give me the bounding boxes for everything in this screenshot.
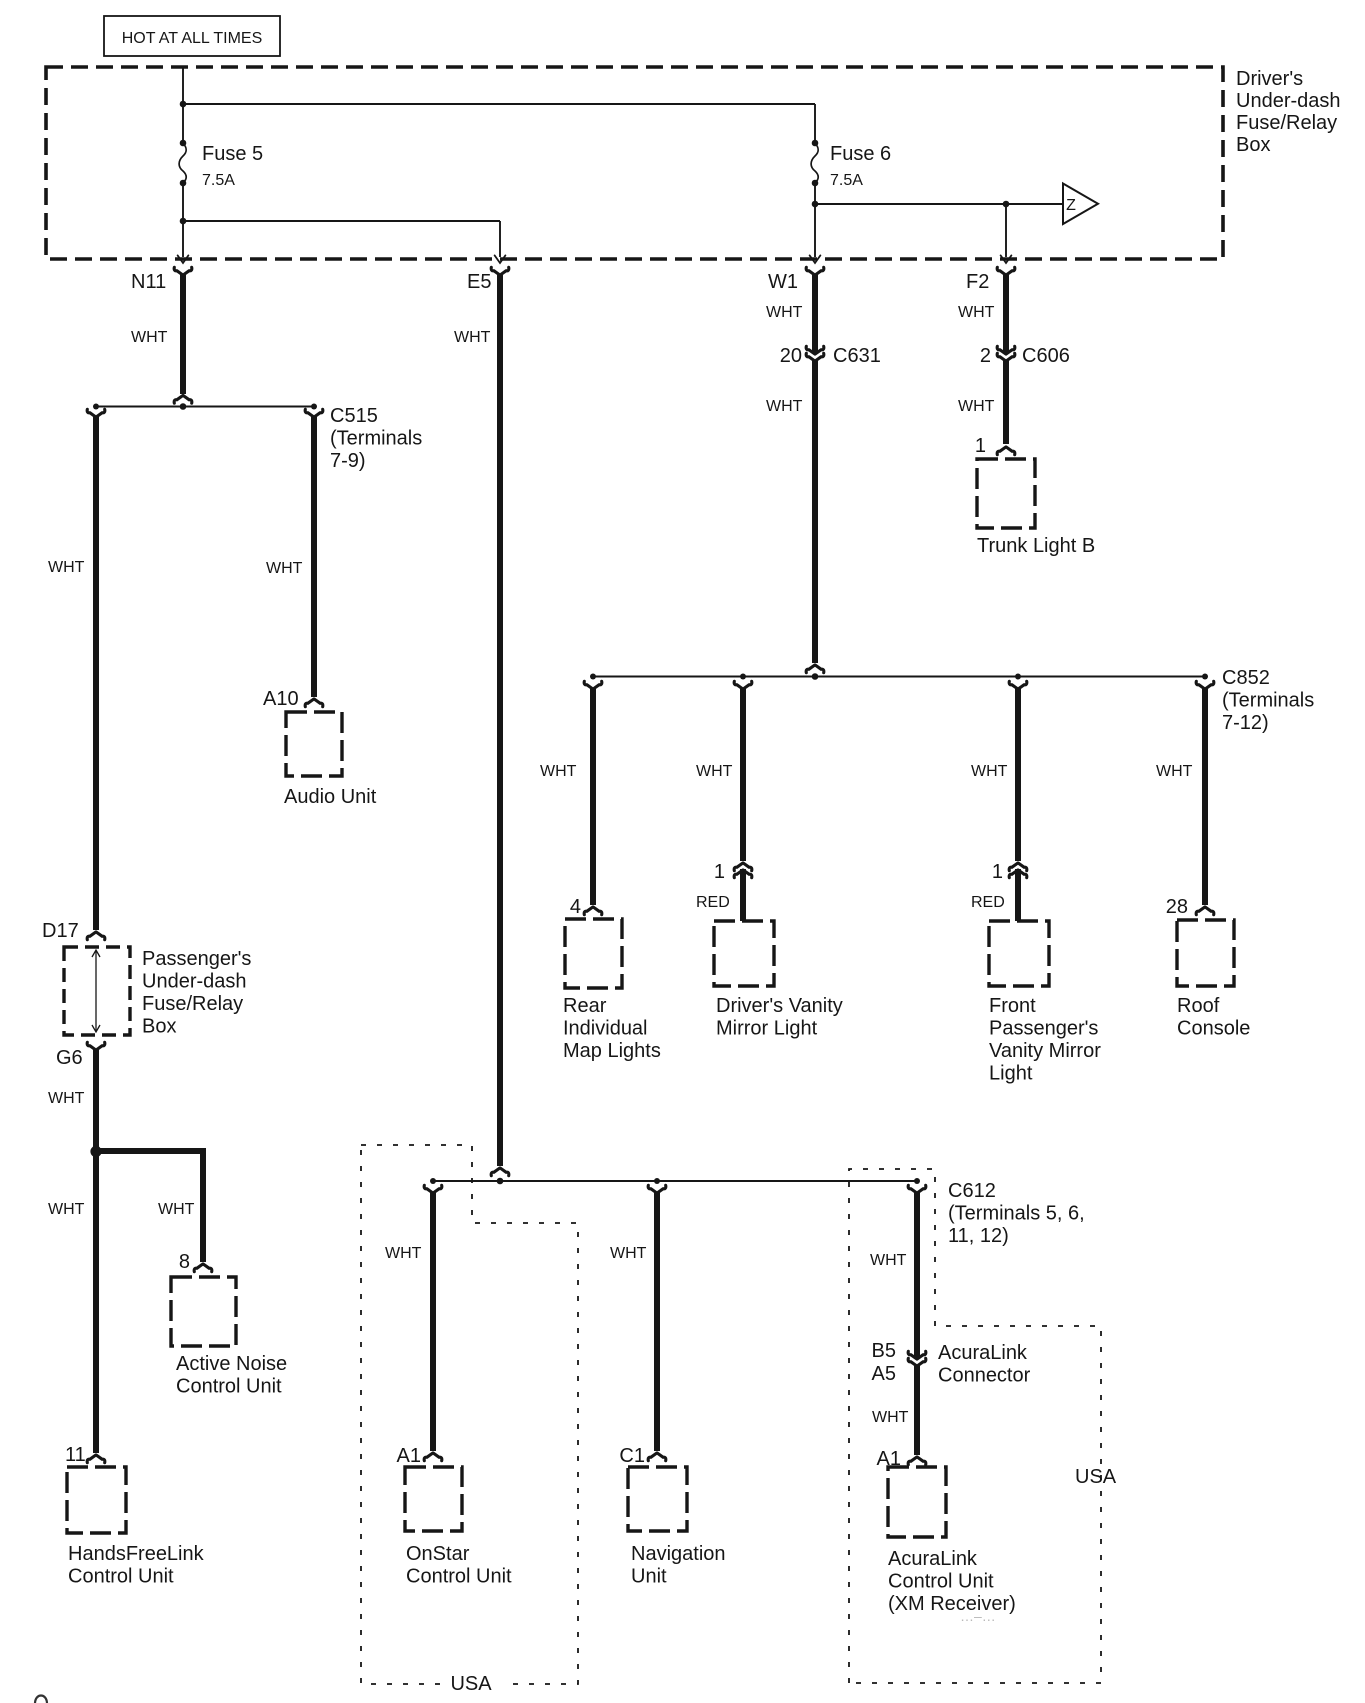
svg-text:…–…: …–… xyxy=(960,1608,996,1624)
svg-text:N11: N11 xyxy=(131,271,166,293)
svg-text:WHT: WHT xyxy=(1156,763,1193,780)
svg-text:C606: C606 xyxy=(1022,345,1070,367)
svg-text:Fuse 6: Fuse 6 xyxy=(830,143,891,165)
svg-text:Roof: Roof xyxy=(1177,995,1220,1017)
svg-text:Driver's: Driver's xyxy=(1236,68,1303,90)
svg-text:WHT: WHT xyxy=(454,329,491,346)
svg-text:Fuse/Relay: Fuse/Relay xyxy=(142,993,243,1015)
svg-text:Map Lights: Map Lights xyxy=(563,1040,661,1062)
svg-text:(XM Receiver): (XM Receiver) xyxy=(888,1593,1016,1615)
svg-text:Passenger's: Passenger's xyxy=(989,1018,1098,1040)
svg-text:Box: Box xyxy=(1236,134,1270,156)
svg-text:11: 11 xyxy=(65,1444,86,1466)
svg-text:Z: Z xyxy=(1066,197,1076,214)
svg-text:C515: C515 xyxy=(330,405,378,427)
svg-text:Control Unit: Control Unit xyxy=(406,1566,512,1588)
svg-text:Control Unit: Control Unit xyxy=(176,1376,282,1398)
svg-text:Fuse 5: Fuse 5 xyxy=(202,143,263,165)
svg-text:WHT: WHT xyxy=(958,398,995,415)
svg-text:Driver's Vanity: Driver's Vanity xyxy=(716,995,843,1017)
svg-text:7-9): 7-9) xyxy=(330,450,366,472)
svg-text:Vanity Mirror: Vanity Mirror xyxy=(989,1040,1101,1062)
svg-text:WHT: WHT xyxy=(158,1201,195,1218)
svg-text:1: 1 xyxy=(975,435,986,457)
svg-text:Front: Front xyxy=(989,995,1036,1017)
svg-text:HOT AT ALL TIMES: HOT AT ALL TIMES xyxy=(122,30,263,47)
svg-text:WHT: WHT xyxy=(870,1252,907,1269)
svg-text:Mirror Light: Mirror Light xyxy=(716,1018,818,1040)
svg-text:Rear: Rear xyxy=(563,995,607,1017)
svg-text:WHT: WHT xyxy=(766,304,803,321)
svg-text:8: 8 xyxy=(179,1251,190,1273)
svg-text:(Terminals 5, 6,: (Terminals 5, 6, xyxy=(948,1203,1085,1225)
svg-text:A1: A1 xyxy=(397,1445,421,1467)
svg-text:Active Noise: Active Noise xyxy=(176,1353,287,1375)
svg-text:USA: USA xyxy=(1075,1466,1117,1488)
svg-text:Navigation: Navigation xyxy=(631,1543,726,1565)
svg-text:A10: A10 xyxy=(263,688,299,710)
svg-text:F2: F2 xyxy=(966,271,989,293)
svg-text:WHT: WHT xyxy=(266,560,303,577)
svg-text:1: 1 xyxy=(992,861,1003,883)
svg-text:Audio Unit: Audio Unit xyxy=(284,786,377,808)
svg-text:A5: A5 xyxy=(872,1363,896,1385)
svg-text:WHT: WHT xyxy=(958,304,995,321)
svg-text:WHT: WHT xyxy=(48,1090,85,1107)
svg-text:(Terminals: (Terminals xyxy=(330,428,422,450)
svg-text:WHT: WHT xyxy=(696,763,733,780)
svg-text:(Terminals: (Terminals xyxy=(1222,690,1314,712)
svg-text:C631: C631 xyxy=(833,345,881,367)
svg-text:WHT: WHT xyxy=(385,1245,422,1262)
svg-text:1: 1 xyxy=(714,861,725,883)
svg-text:D17: D17 xyxy=(42,920,79,942)
svg-text:Box: Box xyxy=(142,1016,176,1038)
svg-text:20: 20 xyxy=(780,345,802,367)
svg-text:Control Unit: Control Unit xyxy=(68,1566,174,1588)
svg-text:Console: Console xyxy=(1177,1018,1250,1040)
svg-text:C852: C852 xyxy=(1222,667,1270,689)
svg-text:7.5A: 7.5A xyxy=(830,172,863,189)
svg-text:E5: E5 xyxy=(467,271,491,293)
svg-text:G6: G6 xyxy=(56,1047,83,1069)
svg-text:RED: RED xyxy=(696,894,730,911)
svg-text:Individual: Individual xyxy=(563,1018,648,1040)
svg-text:7-12): 7-12) xyxy=(1222,712,1269,734)
svg-text:Under-dash: Under-dash xyxy=(1236,90,1341,112)
svg-text:4: 4 xyxy=(570,896,581,918)
svg-text:WHT: WHT xyxy=(131,329,168,346)
svg-text:2: 2 xyxy=(980,345,991,367)
svg-text:11, 12): 11, 12) xyxy=(948,1225,1009,1247)
svg-text:Light: Light xyxy=(989,1063,1033,1085)
svg-text:HandsFreeLink: HandsFreeLink xyxy=(68,1543,205,1565)
svg-text:WHT: WHT xyxy=(872,1409,909,1426)
svg-text:WHT: WHT xyxy=(610,1245,647,1262)
svg-text:B5: B5 xyxy=(872,1340,896,1362)
svg-text:RED: RED xyxy=(971,894,1005,911)
svg-text:Under-dash: Under-dash xyxy=(142,971,247,993)
svg-text:WHT: WHT xyxy=(540,763,577,780)
svg-text:OnStar: OnStar xyxy=(406,1543,470,1565)
svg-text:AcuraLink: AcuraLink xyxy=(888,1548,978,1570)
svg-text:7.5A: 7.5A xyxy=(202,172,235,189)
svg-text:Trunk Light B: Trunk Light B xyxy=(977,535,1095,557)
svg-text:Fuse/Relay: Fuse/Relay xyxy=(1236,112,1337,134)
svg-text:C612: C612 xyxy=(948,1180,996,1202)
svg-text:AcuraLink: AcuraLink xyxy=(938,1342,1028,1364)
svg-text:Unit: Unit xyxy=(631,1566,667,1588)
svg-text:WHT: WHT xyxy=(48,1201,85,1218)
svg-text:Passenger's: Passenger's xyxy=(142,948,251,970)
svg-text:28: 28 xyxy=(1166,896,1188,918)
svg-text:Control Unit: Control Unit xyxy=(888,1571,994,1593)
svg-text:USA: USA xyxy=(450,1673,492,1695)
svg-text:WHT: WHT xyxy=(766,398,803,415)
svg-text:Connector: Connector xyxy=(938,1365,1031,1387)
svg-text:C1: C1 xyxy=(619,1445,645,1467)
svg-text:W1: W1 xyxy=(768,271,798,293)
svg-text:WHT: WHT xyxy=(971,763,1008,780)
svg-text:WHT: WHT xyxy=(48,559,85,576)
